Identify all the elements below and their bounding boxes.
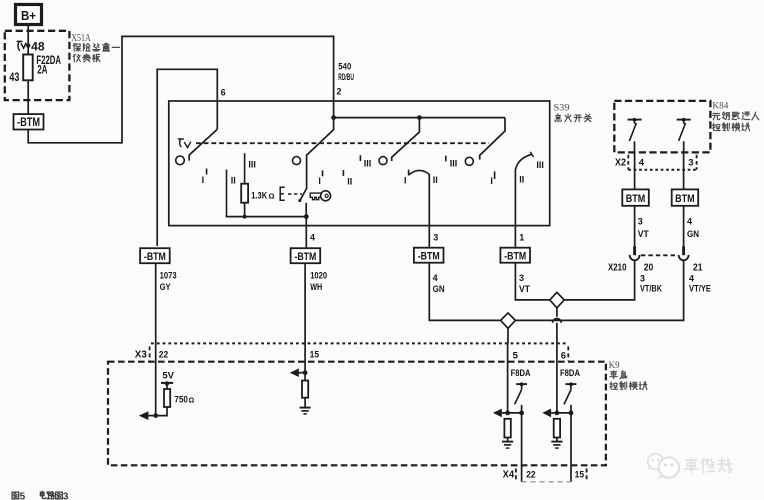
svg-text:4: 4	[687, 216, 692, 226]
svg-text:I: I	[490, 176, 493, 186]
svg-text:III: III	[364, 159, 372, 169]
X3 label	[135, 350, 147, 361]
svg-text:22: 22	[526, 469, 536, 480]
svg-text:3: 3	[688, 157, 693, 168]
svg-text:21: 21	[693, 263, 703, 274]
svg-text:GY: GY	[160, 282, 171, 292]
connector BTM (VT)	[622, 189, 649, 205]
svg-text:VT/YE: VT/YE	[689, 284, 711, 294]
svg-text:3: 3	[638, 216, 643, 226]
svg-text:4: 4	[310, 232, 315, 242]
svg-text:6: 6	[221, 88, 226, 98]
mechanical coupling dashed line	[196, 142, 489, 144]
X4 link dashed	[522, 481, 571, 483]
X3 pin 22 label	[159, 350, 169, 361]
X210 pin 21 label	[693, 263, 703, 274]
S39 wafer2 fixed contact	[305, 203, 307, 217]
svg-text:WH: WH	[310, 282, 322, 292]
wire 1073 GY label	[160, 271, 177, 292]
X210 label	[608, 263, 627, 274]
wire S39 pin 1 out	[515, 226, 524, 248]
X3 bracket	[149, 346, 151, 361]
signal arrow left (pin6)	[542, 409, 551, 418]
resistor 1.3K	[241, 184, 248, 203]
internal bus (pin6)	[551, 412, 571, 414]
wire X210-21 to BTM	[683, 206, 685, 246]
S39 internal top bus	[334, 117, 505, 119]
svg-text:-BTM: -BTM	[418, 251, 440, 263]
wire S39 pin 1 internal	[514, 170, 516, 226]
svg-text:II: II	[231, 176, 236, 186]
svg-text:III: III	[450, 159, 458, 169]
svg-text:3: 3	[640, 274, 645, 284]
watermark text chexiuwo	[685, 458, 732, 473]
wire K9 pin22 internal	[155, 343, 157, 415]
svg-text:II: II	[347, 177, 352, 187]
X210 dashed link	[641, 254, 677, 256]
svg-text:Ω: Ω	[269, 191, 275, 200]
svg-text:3: 3	[433, 232, 438, 242]
S39 name chinese	[555, 114, 592, 122]
X3 bracket right	[567, 346, 569, 361]
wire 1020 WH label	[310, 271, 327, 292]
resistor 750 value	[174, 394, 194, 404]
junction dot bus-pin4	[304, 214, 309, 219]
signal arrow left (pin5)	[493, 409, 502, 418]
wire label 540 RD/BU	[338, 62, 354, 83]
svg-text:VT: VT	[638, 229, 649, 239]
wire to X4 pin15	[570, 413, 572, 482]
wire to pullup resistor	[156, 407, 167, 416]
X2 pin 4 label	[639, 157, 645, 168]
K9 designator	[609, 361, 620, 371]
svg-text:Ω: Ω	[189, 397, 195, 404]
5V label	[162, 370, 174, 381]
bridging contact to pin 1	[515, 152, 544, 185]
svg-text:BTM: BTM	[675, 193, 695, 205]
caption figure number	[12, 491, 69, 500]
fuse F22DA 2A	[23, 55, 33, 81]
wire resistor to ground	[304, 398, 306, 408]
svg-text:RD/BU: RD/BU	[338, 72, 354, 82]
X4 label	[503, 469, 515, 480]
connector -BTM (VT)	[500, 248, 530, 263]
pin 43 label	[9, 70, 19, 84]
K84 designator	[712, 102, 728, 112]
X2 bracket right	[696, 155, 698, 170]
junction dot pin6 wire	[555, 411, 560, 416]
wire S39 pin 6 out -BTM (1073)	[140, 248, 170, 263]
svg-text:GN: GN	[687, 229, 699, 239]
S39 internal bottom bus	[226, 216, 307, 218]
S39 designator	[554, 104, 570, 114]
S39 wafer4 position I tick	[490, 171, 494, 185]
wire 3 VT label K84	[638, 216, 649, 239]
svg-text:5: 5	[20, 491, 26, 500]
S39 wafer3 moving arm	[392, 118, 420, 161]
svg-text:GN: GN	[433, 284, 445, 294]
svg-text:2: 2	[337, 87, 342, 97]
K84 name chinese line1	[713, 112, 759, 120]
S39 wafer1 position III line	[245, 153, 256, 184]
svg-text:VT/BK: VT/BK	[640, 284, 662, 294]
keyless module K84 dashed box	[614, 101, 710, 152]
X4 pin 22 label	[526, 469, 536, 480]
watermark icon	[647, 454, 679, 479]
connector BTM (GN)	[672, 189, 699, 205]
svg-text:15: 15	[310, 349, 320, 360]
F8DA label (pin5)	[511, 368, 531, 379]
wire BTM to K84 left	[634, 152, 636, 189]
X3 pin 15 label	[310, 349, 320, 360]
wire to S39 pin 6	[157, 69, 217, 246]
wire S39 pin 3 internal	[428, 174, 430, 226]
battery feed B+	[16, 5, 42, 25]
pullup resistor 750	[164, 389, 170, 407]
S39 wafer2 position III tick	[360, 155, 371, 168]
junction dot pin5 switch	[519, 411, 524, 416]
junction dot pin6 switch	[569, 411, 574, 416]
svg-text:F8DA: F8DA	[511, 368, 531, 379]
svg-text:15: 15	[575, 469, 585, 480]
connector -BTM (instrument panel)	[14, 114, 44, 129]
svg-text:6: 6	[561, 350, 566, 361]
fusebox name chinese line1	[73, 43, 120, 51]
fuse value label F22DA 2A	[36, 53, 61, 77]
wire B+ to fuse	[27, 25, 29, 55]
svg-text:3: 3	[63, 491, 69, 500]
svg-text:K9: K9	[609, 361, 620, 371]
ignition switch S39 box	[169, 101, 550, 226]
X210 pin20 terminal	[630, 246, 640, 260]
wire K9 pin5 internal	[507, 343, 509, 413]
wire fuse to -BTM	[27, 80, 29, 114]
S39 wafer2 position I tick	[318, 170, 322, 186]
svg-text:4: 4	[433, 273, 438, 283]
svg-text:540: 540	[338, 62, 351, 72]
svg-text:1.3K: 1.3K	[251, 190, 267, 200]
svg-text:1: 1	[519, 232, 524, 242]
wire splice down to K9 pin5	[507, 328, 509, 343]
wire 4 GN label	[433, 273, 445, 294]
S39 wafer2 blade tip dot	[298, 199, 301, 202]
K84 switch left	[628, 118, 642, 152]
svg-text:5V: 5V	[162, 370, 174, 381]
X3 dotted line	[151, 342, 568, 344]
S39 wafer4 position III tick	[446, 156, 458, 169]
resistor to ground (pin6)	[554, 419, 560, 438]
svg-text:X51A: X51A	[71, 33, 91, 44]
X210 pin 20 label	[644, 263, 654, 274]
fusebox name chinese line2	[73, 54, 100, 62]
svg-text:BTM: BTM	[626, 193, 646, 205]
wire S39 pin 3 out	[429, 226, 438, 248]
X4 pin 15 label	[575, 469, 585, 480]
wire 1073 GY	[155, 263, 157, 343]
svg-text:B+: B+	[21, 8, 36, 23]
wire 3 VT label	[519, 273, 530, 294]
wire X210-20 to BTM	[634, 206, 636, 246]
wire resistor to bus	[244, 203, 246, 217]
svg-text:III: III	[536, 160, 544, 170]
key-turn actuator E with dashes	[280, 187, 302, 200]
svg-text:3: 3	[519, 273, 524, 283]
svg-text:750: 750	[174, 394, 188, 404]
wire splice to X210-21	[515, 260, 683, 320]
svg-text:I: I	[202, 175, 205, 185]
wire 3 VT	[515, 263, 549, 300]
5V supply tap	[161, 381, 173, 385]
splice diamond S179 (VT)	[550, 292, 564, 308]
body control module K9 dashed box	[108, 362, 606, 466]
svg-text:K84: K84	[712, 102, 728, 112]
fusebox X51A dashed box	[5, 31, 70, 100]
junction dot pin2-bus	[331, 115, 336, 120]
S39 wafer1 moving arm	[189, 129, 217, 160]
wire K9 pin6 internal	[556, 343, 558, 413]
S39 wafer1 contact circle	[176, 156, 185, 165]
junction dot wafer3-bus	[417, 115, 422, 120]
driver switch F8DA (pin6)	[564, 382, 576, 413]
X2 pin 3 label	[688, 157, 693, 168]
S39 wafer1 rest hook	[178, 139, 190, 148]
svg-text:-BTM: -BTM	[144, 251, 166, 263]
svg-text:4: 4	[639, 157, 645, 168]
resistor 1.3K value	[251, 190, 274, 200]
svg-text:1020: 1020	[310, 271, 327, 281]
X4 bracket right	[586, 469, 588, 481]
svg-text:4: 4	[689, 274, 694, 284]
svg-text:X4: X4	[503, 469, 515, 480]
pin 6 label S39	[221, 88, 226, 98]
S39 wafer4 contact circle	[465, 157, 473, 165]
svg-text:II: II	[519, 175, 524, 185]
wire splice to X210-20	[564, 260, 634, 300]
wire resistor to ground pin5	[507, 438, 509, 442]
bridging contact to pin 3	[404, 170, 438, 186]
X3 pin 5 label	[513, 350, 519, 361]
ignition key icon	[310, 191, 330, 201]
svg-text:1073: 1073	[160, 271, 177, 281]
svg-text:5: 5	[513, 350, 519, 361]
X4 bracket left	[515, 469, 517, 481]
internal bus (pin5)	[502, 412, 522, 414]
driver switch F8DA (pin5)	[515, 382, 527, 413]
svg-text:II: II	[433, 175, 438, 185]
junction dot pin15	[303, 370, 308, 375]
signal arrow left (pin15)	[290, 368, 305, 377]
X2 bracket left	[627, 155, 629, 170]
signal arrow left (pin22)	[139, 411, 156, 420]
svg-text:43: 43	[9, 70, 19, 84]
svg-text:20: 20	[644, 263, 654, 274]
svg-text:-BTM: -BTM	[294, 251, 316, 263]
K9 name chinese line2	[610, 382, 647, 390]
S39 wafer2 contact circle	[293, 157, 301, 165]
pin 48 label	[31, 39, 45, 53]
resistor to ground (pin5)	[504, 419, 510, 438]
wire 4 GN	[429, 263, 500, 321]
svg-text:III: III	[248, 160, 256, 170]
wire BTM to K84 right	[683, 152, 685, 189]
svg-text:I: I	[404, 176, 407, 186]
wire 540 RD/BU	[28, 36, 333, 142]
pin 2 label S39	[337, 87, 342, 97]
svg-text:48: 48	[31, 39, 45, 53]
wire 1020 WH	[304, 263, 306, 343]
X3 pin 6 label	[561, 350, 566, 361]
wire S39 pin 4 out	[306, 217, 315, 249]
K9 name chinese line1	[610, 371, 627, 379]
node 48 junction dot	[26, 43, 30, 47]
wire resistor to 5V	[166, 383, 168, 389]
splice diamond S178 (GN)	[501, 313, 516, 328]
junction dot pin5 wire	[505, 411, 510, 416]
X210 pin21 terminal	[679, 246, 689, 260]
wire splice down to K9 pin6 with hop	[553, 308, 562, 344]
S39 wafer2 position II tick	[343, 170, 352, 187]
svg-text:VT: VT	[519, 284, 530, 294]
terminal 48 tap symbol	[17, 41, 26, 50]
S39 wafer1 position II line	[227, 170, 236, 217]
fusebox name X51A	[71, 33, 91, 44]
svg-text:S39: S39	[554, 104, 570, 114]
K84 switch right	[677, 118, 691, 152]
svg-text:F8DA: F8DA	[560, 368, 580, 379]
K84 name chinese line2	[713, 123, 750, 131]
S39 wafer1 position I tick	[202, 169, 207, 186]
S39 wafer4 moving arm	[480, 118, 505, 160]
junction dot pin22	[153, 413, 158, 418]
svg-text:I: I	[318, 176, 321, 186]
ground (pin6)	[551, 442, 562, 449]
resistor to ground (pin15)	[302, 381, 308, 398]
svg-text:X210: X210	[608, 263, 627, 274]
ground (pin5)	[502, 442, 513, 449]
svg-text:22: 22	[159, 350, 169, 361]
svg-text:X2: X2	[615, 157, 626, 168]
X2 dotted line	[628, 169, 696, 171]
junction dot resistor-bus	[243, 215, 247, 219]
wire K9 pin15 internal	[304, 343, 306, 380]
wire to X4 pin22	[521, 413, 523, 482]
connector -BTM (1020)	[291, 248, 321, 263]
X2 label	[615, 157, 626, 168]
F8DA label (pin6)	[560, 368, 580, 379]
wire 4 VT/YE label	[689, 274, 711, 294]
svg-text:X3: X3	[135, 350, 147, 361]
wire resistor to ground pin6	[556, 438, 558, 442]
svg-text:2A: 2A	[37, 62, 48, 76]
wire 4 GN label K84	[687, 216, 699, 239]
connector -BTM (GN)	[414, 248, 444, 263]
S39 wafer3 contact circle	[379, 157, 387, 165]
svg-text:-BTM: -BTM	[504, 251, 526, 263]
ground (pin15)	[300, 408, 311, 414]
svg-text:-BTM: -BTM	[17, 117, 40, 129]
S39 wafer2 moving arm	[300, 118, 334, 201]
wire 3 VT/BK label	[640, 274, 662, 294]
